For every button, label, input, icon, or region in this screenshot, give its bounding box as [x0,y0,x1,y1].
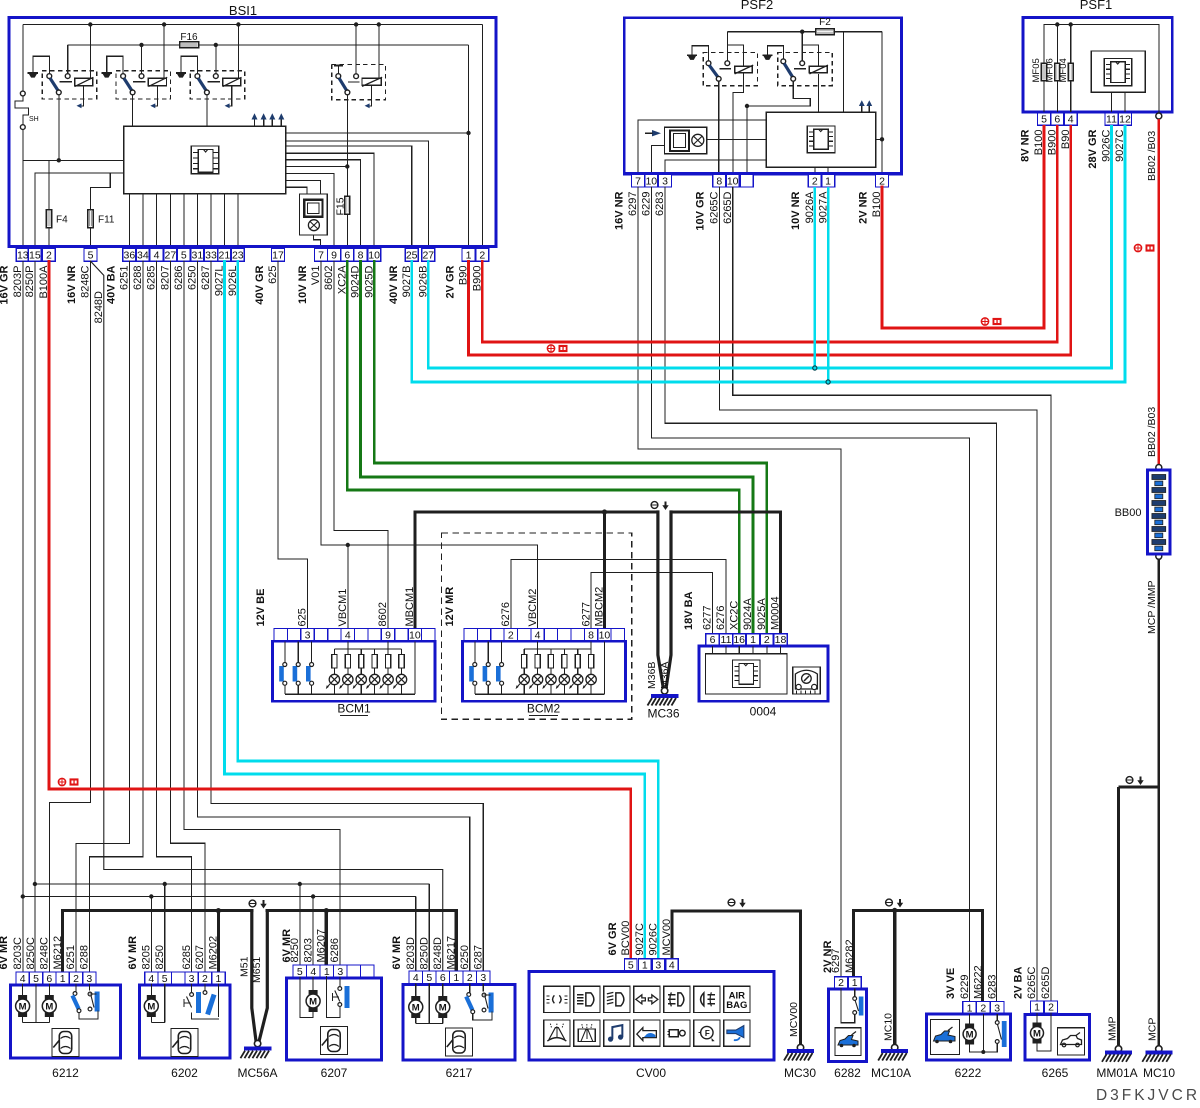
svg-text:4: 4 [20,973,26,985]
svg-text:27: 27 [422,249,434,261]
door icon 6207 [321,1027,348,1055]
svg-text:12V BE: 12V BE [255,589,267,627]
svg-text:MCP /MMP: MCP /MMP [1146,581,1158,634]
interior lamp unit BCM2 dashed housing [442,533,632,719]
svg-text:F: F [705,1029,710,1038]
wire 9026A cyan [813,187,816,368]
svg-text:5: 5 [88,249,94,261]
door icon 6217 [446,1028,473,1056]
svg-text:M6217: M6217 [445,936,457,970]
boot lock module 6282 [835,977,848,989]
switch in 6217 [469,984,471,994]
wire 6250 [197,261,469,971]
svg-text:8203D: 8203D [405,937,417,969]
svg-text:6202: 6202 [171,1066,198,1080]
battery marker [58,778,65,785]
svg-text:6V MR: 6V MR [391,936,403,970]
svg-text:MF06: MF06 [1045,58,1056,82]
svg-text:4: 4 [345,630,351,642]
junction on rail [139,43,143,47]
wire pin15 to MCU [35,173,124,249]
ground symbol marker [249,900,256,907]
svg-text:8250D: 8250D [418,937,430,969]
shunt SH [22,25,24,92]
svg-text:6251: 6251 [119,266,131,290]
svg-text:6282: 6282 [834,1066,861,1080]
car icon 6265 [1057,1028,1084,1055]
fuel flap motor 6265 [1031,1001,1044,1013]
wire 6297 [638,187,841,977]
BSI1 pin row [8,245,496,248]
svg-text:3: 3 [189,973,195,985]
connector BB00 [1147,470,1170,554]
svg-text:6222: 6222 [955,1066,982,1080]
svg-text:6276: 6276 [715,606,727,630]
door module 6202 [145,972,226,985]
fuse F11 [90,228,92,249]
svg-text:25: 25 [406,249,418,261]
wire 9027L cyan [224,261,644,959]
svg-text:8203: 8203 [302,938,314,962]
wire B900 red [482,126,1057,342]
wire 6251 [76,261,129,972]
wire B90 red [469,126,1071,355]
svg-text:MMP: MMP [1106,1017,1118,1042]
svg-text:8205: 8205 [141,945,153,969]
svg-text:4: 4 [413,972,419,984]
wire 9026L cyan [238,261,659,959]
svg-text:8203C: 8203C [12,937,24,969]
svg-text:5: 5 [181,249,187,261]
svg-text:1: 1 [453,972,459,984]
svg-text:1: 1 [825,175,831,187]
wire V01 to VBCM1 VBCM2 [321,261,538,628]
svg-text:16: 16 [733,634,745,646]
svg-text:1: 1 [215,973,221,985]
wire 6276 [511,560,726,634]
wire to empty pin [746,106,748,174]
PSF1 pin row [1038,113,1051,126]
svg-text:33: 33 [205,249,217,261]
wire BB02 red [1157,119,1160,465]
svg-text:1: 1 [852,977,858,989]
ground MC56A [254,1040,260,1046]
motor window 6202 [150,984,152,995]
svg-text:5: 5 [162,973,168,985]
svg-text:M6222: M6222 [973,965,985,999]
wire pin2 riser [481,25,483,249]
connector arrows on MCU [254,119,256,126]
svg-text:5: 5 [297,966,303,978]
svg-text:10: 10 [409,630,421,642]
ECU box BSI1 [9,18,496,247]
svg-text:8248C: 8248C [39,937,51,969]
svg-text:MCV00: MCV00 [661,919,673,956]
svg-text:6265C: 6265C [709,191,721,223]
motor window 6212 b [48,984,50,995]
wire pin3 to MCU [665,160,766,175]
svg-text:PSF1: PSF1 [1080,0,1113,12]
svg-text:9: 9 [331,249,337,261]
svg-text:18: 18 [775,634,787,646]
relay K1 in BSI1 [28,72,38,74]
wire 8602 [334,261,388,628]
svg-text:10V GR: 10V GR [695,191,707,230]
svg-text:6283: 6283 [654,192,666,216]
boot lock motor 6222 [963,1002,977,1015]
switches in BCM2 [469,666,474,682]
wire MCP MMP from BB00 [1156,465,1162,471]
ground wire MCV00 thick [672,911,801,1046]
svg-text:11: 11 [1106,114,1117,126]
svg-text:6207: 6207 [194,945,206,969]
svg-text:7: 7 [318,249,324,261]
wire 6285 [157,261,192,972]
svg-text:F16: F16 [180,32,198,43]
svg-text:PSF2: PSF2 [741,0,774,12]
svg-text:3: 3 [480,972,486,984]
interior lamp unit BCM2 [464,629,625,642]
svg-text:M: M [439,1003,447,1014]
svg-text:M: M [1033,1029,1041,1040]
motor window 6217 [415,984,417,996]
svg-text:6287: 6287 [200,266,212,290]
svg-text:2: 2 [812,175,818,187]
wire 8203P bus [22,261,24,972]
svg-text:9024A: 9024A [742,598,754,630]
svg-text:M: M [19,1002,27,1013]
svg-text:1: 1 [466,249,472,261]
BCM1 bottom rail [285,693,415,695]
svg-text:5: 5 [33,973,39,985]
svg-text:BCM1: BCM1 [337,702,371,716]
fuse MF04 [1070,25,1072,64]
wire 6288 [89,261,143,972]
fusebox PSF2 [624,18,901,175]
wire K6 coil to MCU [817,74,819,112]
actuator icon in 0004 [793,667,821,694]
svg-text:2: 2 [508,630,514,642]
svg-text:8: 8 [588,630,594,642]
switch in 6212 b [88,984,90,991]
svg-text:M6282: M6282 [844,939,856,973]
svg-text:6250: 6250 [187,266,199,290]
relay K3 in BSI1 [176,72,186,74]
relay K4 in BSI1 [334,65,343,67]
svg-text:BB00: BB00 [1115,507,1142,519]
svg-text:8207: 8207 [160,266,172,290]
svg-text:27: 27 [165,249,177,261]
svg-text:8250C: 8250C [25,937,37,969]
svg-text:6277: 6277 [702,606,714,630]
ground bus MBCM1 M36 M0004 [415,512,658,629]
icon row 1 CV00 [544,986,570,1012]
svg-text:F2: F2 [819,17,831,28]
wire 8250P bus [34,261,36,972]
wire 6229 [651,187,969,1002]
svg-text:15: 15 [29,249,41,261]
wire K5 lever to pin 8 [718,81,720,174]
svg-text:6: 6 [1054,114,1060,126]
wire K5 coil to pin 10 [733,74,744,174]
svg-text:1: 1 [60,973,66,985]
svg-text:12V MR: 12V MR [444,587,456,627]
svg-text:2: 2 [467,972,473,984]
svg-text:6287: 6287 [472,945,484,969]
ground MC10 [1156,1046,1162,1052]
svg-text:F15: F15 [335,197,347,215]
svg-text:6229: 6229 [641,192,653,216]
driver module U3 in PSF2 [665,127,707,154]
svg-text:34: 34 [137,249,149,261]
svg-text:6212: 6212 [52,1066,79,1080]
svg-text:16V GR: 16V GR [0,265,11,304]
wire 6265C [719,187,1037,1001]
svg-text:M6212: M6212 [52,936,64,970]
svg-text:10: 10 [368,249,380,261]
fuse F4 [48,228,50,249]
PSF2 pin row [624,172,901,175]
IC chip in 0004 [732,660,760,688]
svg-text:6285: 6285 [146,266,158,290]
ground symbol marker [1126,777,1133,784]
svg-text:2V GR: 2V GR [445,265,457,298]
switch in 6217 b [482,984,484,992]
PSF1 top rail [1044,25,1159,114]
svg-text:6265D: 6265D [1040,967,1052,999]
svg-text:10: 10 [645,175,657,187]
svg-text:40V NR: 40V NR [388,265,400,304]
fusebox PSF1 [1023,18,1172,113]
svg-text:6265: 6265 [1042,1066,1069,1080]
svg-text:10: 10 [727,175,739,187]
svg-text:28V GR: 28V GR [1087,129,1099,168]
svg-text:M: M [966,1030,974,1041]
interior lamp unit BCM1 [274,629,435,642]
svg-text:XC2C: XC2C [728,601,740,630]
wire B100 red [882,126,1044,328]
svg-text:2: 2 [73,973,79,985]
svg-text:4: 4 [535,630,541,642]
svg-text:6250: 6250 [459,945,471,969]
switch in 6207 [339,976,341,986]
svg-text:4: 4 [148,973,154,985]
svg-text:2V BA: 2V BA [1013,967,1025,999]
MCU bottom pin wires [128,194,130,249]
svg-text:MC56A: MC56A [237,1066,277,1080]
svg-text:BB02 /B03: BB02 /B03 [1146,131,1158,181]
svg-text:2: 2 [879,175,885,187]
svg-text:18V BA: 18V BA [683,591,695,630]
svg-text:F4: F4 [56,215,68,226]
fuse MF05 [1043,25,1045,64]
wire 6287 [211,261,483,971]
svg-text:40V BA: 40V BA [106,265,118,304]
rail from F16 [68,44,469,46]
ground symbol marker [651,502,658,509]
svg-text:16V NR: 16V NR [614,191,626,230]
svg-text:BCM2: BCM2 [527,702,561,716]
svg-text:M36A: M36A [659,662,671,689]
wire 6265D [733,187,1051,1001]
wire 9024D green [361,261,754,634]
svg-text:MC10A: MC10A [871,1066,911,1080]
svg-text:36: 36 [124,249,136,261]
svg-text:BSI1: BSI1 [229,3,257,18]
battery marker [1134,244,1141,251]
wire lever K3 down [206,95,208,126]
battery marker [547,345,554,352]
supply rail in BSI1 [23,24,483,26]
driver module U2 in BSI1 [300,194,328,235]
svg-text:8248C: 8248C [80,265,92,297]
ground MC36 [661,688,667,694]
svg-text:VBCM1: VBCM1 [337,589,349,627]
svg-text:BCV00: BCV00 [620,921,632,956]
svg-text:MCP: MCP [1147,1018,1159,1041]
svg-text:MF05: MF05 [1031,58,1042,82]
svg-text:2: 2 [764,634,770,646]
svg-text:MBCM2: MBCM2 [594,587,606,627]
switches in BCM1 [279,666,284,682]
svg-text:M6202: M6202 [208,936,220,970]
wire K6 lever jog [747,81,810,106]
svg-text:6265D: 6265D [722,191,734,223]
svg-text:6297: 6297 [830,949,842,973]
fuse MF06 [1056,25,1058,64]
svg-text:6229: 6229 [959,975,971,999]
svg-text:8203P: 8203P [12,266,24,298]
ground bus M6282 M6222 MC10A [854,910,983,1001]
ground symbol marker [728,899,735,906]
svg-text:625: 625 [297,608,309,626]
fuse F16 [180,42,199,48]
ground MM01A [1115,1046,1121,1052]
svg-text:40V GR: 40V GR [254,265,266,304]
BCM2 bottom rail [475,693,605,695]
svg-text:M: M [412,1003,420,1014]
svg-text:1: 1 [750,634,756,646]
split to grounds [1119,786,1159,789]
instrument cluster CV00 [625,959,638,972]
car icon 6282 [835,1028,861,1056]
switch in 6212 [75,984,77,993]
svg-text:8250: 8250 [289,938,301,962]
wire B100 riser [881,32,883,175]
svg-text:3: 3 [86,973,92,985]
svg-text:17: 17 [272,249,284,261]
wire 8248C [49,261,90,972]
wire from F2 line to MCU [842,32,844,112]
svg-text:6283: 6283 [986,975,998,999]
svg-text:6276: 6276 [500,602,512,626]
svg-text:0004: 0004 [750,705,777,719]
svg-text:3V VE: 3V VE [945,968,957,999]
wire 9027B cyan [412,126,1125,382]
svg-text:13: 13 [17,249,29,261]
svg-text:6285: 6285 [181,945,193,969]
relay K2 in BSI1 [102,72,112,74]
svg-text:M36B: M36B [646,662,658,689]
svg-text:1: 1 [1034,1001,1040,1013]
svg-text:MC36: MC36 [647,707,679,721]
svg-text:6217: 6217 [446,1066,473,1080]
svg-text:6: 6 [46,973,52,985]
svg-text:M0004: M0004 [770,596,782,630]
svg-text:6286: 6286 [173,266,185,290]
svg-text:8602: 8602 [323,266,335,290]
svg-text:10: 10 [599,630,611,642]
svg-text:9027C: 9027C [634,923,646,955]
motor window 6207 [299,976,301,988]
svg-text:M: M [147,1002,155,1013]
svg-text:6297: 6297 [627,192,639,216]
wire 8248D [91,261,443,971]
svg-text:6207: 6207 [321,1066,348,1080]
svg-text:6288: 6288 [79,945,91,969]
svg-text:M: M [309,997,317,1008]
motor in 6222 [969,1014,971,1024]
svg-text:M6207: M6207 [316,929,328,963]
svg-text:MM01A: MM01A [1096,1066,1137,1080]
svg-text:5: 5 [426,972,432,984]
wire 9027A cyan [827,187,830,382]
wire B100A red [49,261,631,959]
MCU of BSI1 [124,126,286,194]
svg-text:9025A: 9025A [756,598,768,630]
svg-text:4: 4 [154,249,160,261]
svg-text:VBCM2: VBCM2 [527,589,539,627]
svg-text:4: 4 [1068,114,1074,126]
fuse F15 and K4 lever wire [346,95,348,197]
MCU of PSF2 [766,112,875,167]
svg-text:MC10: MC10 [1143,1066,1175,1080]
svg-text:31: 31 [192,249,204,261]
wire 8207 [170,261,205,972]
wire 6286 [184,261,340,965]
svg-text:6277: 6277 [580,602,592,626]
svg-text:8: 8 [716,175,722,187]
door module 6207 [293,965,374,978]
svg-text:8V NR: 8V NR [1020,129,1032,161]
svg-text:3: 3 [305,630,311,642]
svg-text:8248D: 8248D [432,937,444,969]
svg-text:6: 6 [344,249,350,261]
svg-text:F11: F11 [98,215,115,226]
svg-text:8250P: 8250P [24,266,36,298]
svg-text:16V NR: 16V NR [66,265,78,304]
door icon 6202 [171,1029,198,1057]
IC chip symbol [191,146,219,174]
wire pin10 to U3 [651,145,664,174]
svg-text:11: 11 [721,634,732,646]
svg-text:6286: 6286 [329,938,341,962]
wire 6283 [665,187,997,1002]
motor window 6212 [22,984,24,995]
door icon 6212 [52,1029,79,1057]
control unit 0004 [706,634,719,646]
svg-text:M: M [45,1002,53,1013]
wire XC2A green [347,261,739,634]
svg-text:9026C: 9026C [648,923,660,955]
wire pin7 to MCU [638,120,766,174]
ground bus M6212 M6202 M51 [63,911,252,972]
MCU of PSF1 [1091,51,1145,92]
fuse F2 line [727,31,882,33]
svg-text:6V MR: 6V MR [127,936,139,970]
ground MC30 [797,1044,803,1050]
ground MC10A [892,1044,898,1050]
